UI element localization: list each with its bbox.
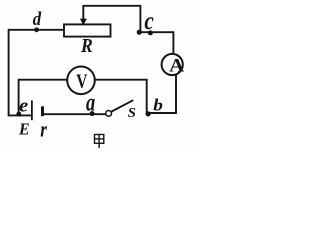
svg-text:b: b — [153, 95, 163, 114]
svg-text:c: c — [144, 7, 154, 35]
svg-text:e: e — [19, 96, 28, 116]
svg-text:E: E — [18, 119, 30, 139]
svg-text:r: r — [40, 117, 47, 142]
svg-text:V: V — [76, 70, 87, 92]
svg-text:R: R — [80, 35, 93, 57]
svg-text:S: S — [128, 105, 136, 121]
svg-text:d: d — [33, 8, 42, 29]
svg-text:A: A — [169, 55, 185, 76]
